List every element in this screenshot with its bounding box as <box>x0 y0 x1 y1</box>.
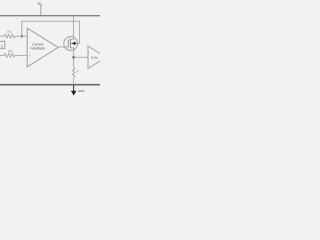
transistor Q1 circle <box>64 37 78 51</box>
resistor RG lead bottom <box>73 77 75 85</box>
transistor Q1 drain lead <box>70 16 73 39</box>
wire VS stub <box>40 6 42 16</box>
node junction dot on source line <box>73 56 75 58</box>
transistor Q1 body lead <box>70 42 77 44</box>
transistor Q1 source lead <box>70 48 73 58</box>
wire top supply rail <box>0 15 100 17</box>
op-amp U1 current feedback amplifier triangle <box>27 28 58 67</box>
svg-text:R: R <box>77 69 79 73</box>
wire op-amp output to gate <box>58 46 68 48</box>
wire sense line top (from input node to MOSFET body) <box>22 21 80 43</box>
svg-text:+: + <box>29 54 31 58</box>
svg-text:VS: VS <box>38 1 43 7</box>
op-amp U2 buffer triangle (clipped at right edge) <box>88 46 106 69</box>
svg-text:GND: GND <box>78 89 86 93</box>
background <box>0 0 100 100</box>
ground arrowhead <box>71 91 77 96</box>
svg-text:Buffer: Buffer <box>91 55 98 59</box>
node junction dot at R1 wire <box>21 35 23 37</box>
wire source to buffer <box>74 56 88 58</box>
svg-text:R1: R1 <box>7 30 11 34</box>
resistor RG zigzag <box>72 68 75 78</box>
pin box (left edge pin) <box>0 41 5 48</box>
transistor Q1 channel bar <box>69 38 71 48</box>
resistor R2 zigzag <box>4 54 15 58</box>
resistor R2 lead right <box>15 54 27 56</box>
svg-text:s: s <box>1 44 3 48</box>
svg-text:R2: R2 <box>8 49 12 53</box>
resistor RG lead top <box>73 57 75 67</box>
resistor R2 lead left <box>0 54 4 56</box>
transistor Q1 gate bar <box>67 39 69 47</box>
resistor R1 zigzag <box>4 34 15 38</box>
wire bottom ground rail <box>0 84 100 86</box>
transistor Q1 body arrow dot <box>72 42 76 46</box>
svg-text:Feedback: Feedback <box>31 46 46 50</box>
resistor R1 lead left <box>0 35 4 37</box>
ground symbol stem <box>73 85 75 92</box>
resistor R1 lead right <box>15 35 27 37</box>
